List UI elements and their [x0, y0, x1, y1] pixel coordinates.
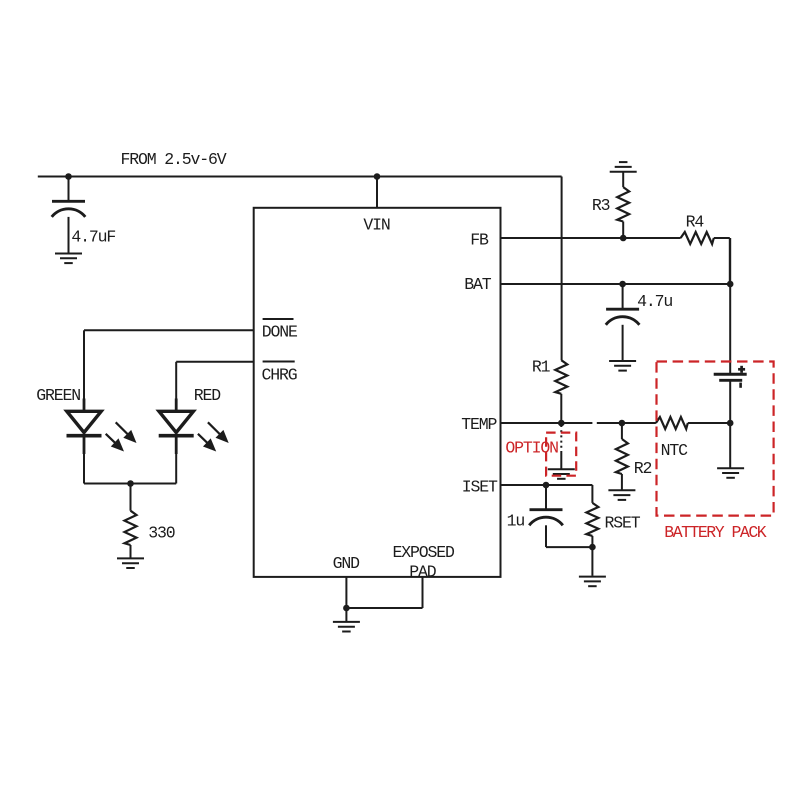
svg-text:NTC: NTC — [661, 441, 689, 460]
svg-text:BAT: BAT — [464, 275, 492, 294]
svg-text:1u: 1u — [507, 511, 525, 530]
svg-text:CHRG: CHRG — [262, 366, 297, 385]
svg-text:4.7u: 4.7u — [637, 292, 672, 311]
svg-text:TEMP: TEMP — [461, 415, 497, 434]
svg-text:FB: FB — [470, 230, 489, 249]
svg-text:EXPOSED: EXPOSED — [393, 543, 456, 562]
svg-text:R4: R4 — [686, 212, 705, 231]
svg-text:4.7uF: 4.7uF — [71, 228, 115, 247]
svg-text:VIN: VIN — [363, 215, 390, 234]
svg-text:DONE: DONE — [262, 323, 298, 342]
svg-text:FROM 2.5v-6V: FROM 2.5v-6V — [121, 150, 227, 169]
svg-text:R3: R3 — [592, 196, 610, 215]
svg-text:330: 330 — [148, 524, 175, 543]
svg-text:BATTERY PACK: BATTERY PACK — [664, 523, 766, 542]
svg-text:RSET: RSET — [605, 513, 641, 532]
svg-text:OPTION: OPTION — [505, 438, 558, 457]
svg-text:PAD: PAD — [409, 563, 437, 582]
svg-text:GND: GND — [333, 554, 361, 573]
svg-text:GREEN: GREEN — [36, 386, 80, 405]
svg-text:RED: RED — [194, 386, 222, 405]
svg-text:R2: R2 — [634, 459, 652, 478]
svg-text:ISET: ISET — [462, 478, 498, 497]
svg-text:R1: R1 — [532, 358, 551, 377]
